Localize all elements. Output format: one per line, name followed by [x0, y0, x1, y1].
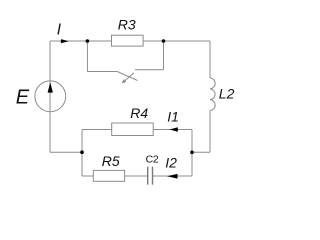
inductor L2 [210, 78, 215, 111]
resistor R3 [112, 35, 144, 46]
arrow current I [61, 39, 69, 43]
wire right rail upper [209, 41, 211, 78]
wire switch branch left drop [86, 41, 88, 72]
resistor R4 [112, 123, 154, 136]
switch S1 opening arrow [122, 73, 134, 83]
svg-text:R3: R3 [118, 17, 136, 33]
svg-text:C2: C2 [146, 154, 159, 166]
svg-text:E: E [16, 87, 30, 109]
wire left rail vertical [49, 41, 51, 152]
arrow source E emf [48, 82, 53, 92]
wire switch branch right horizontal [135, 69, 164, 71]
svg-text:I2: I2 [165, 155, 177, 171]
node dot bottom-right [190, 151, 194, 155]
wire R5 branch horizontal [82, 175, 192, 177]
resistor R5 [93, 170, 124, 181]
switch S1 blade [117, 72, 137, 81]
node dot bottom-left [80, 150, 84, 154]
node dot top-left [86, 39, 90, 43]
wire left connector vertical [81, 130, 83, 177]
capacitor C2 plates [148, 167, 153, 185]
node dot top-right [162, 39, 166, 43]
svg-text:L2: L2 [219, 86, 235, 102]
wire right connector vertical [191, 130, 193, 177]
svg-text:R4: R4 [130, 105, 148, 121]
svg-text:I: I [57, 22, 62, 39]
svg-text:I1: I1 [167, 109, 179, 125]
wire right rail lower [209, 111, 211, 153]
arrow current I2 [167, 174, 178, 179]
wire switch branch right rise [163, 41, 165, 70]
wire right middle horizontal [192, 151, 210, 153]
wire bottom-left horizontal to node [50, 151, 82, 153]
arrow current I1 [170, 127, 178, 131]
wire R4 branch horizontal [82, 129, 192, 131]
wire switch branch left horizontal [87, 71, 117, 73]
capacitor C2 gap [148, 171, 152, 181]
svg-text:R5: R5 [102, 153, 120, 169]
source E circle [35, 81, 66, 112]
wire top horizontal [50, 40, 210, 42]
